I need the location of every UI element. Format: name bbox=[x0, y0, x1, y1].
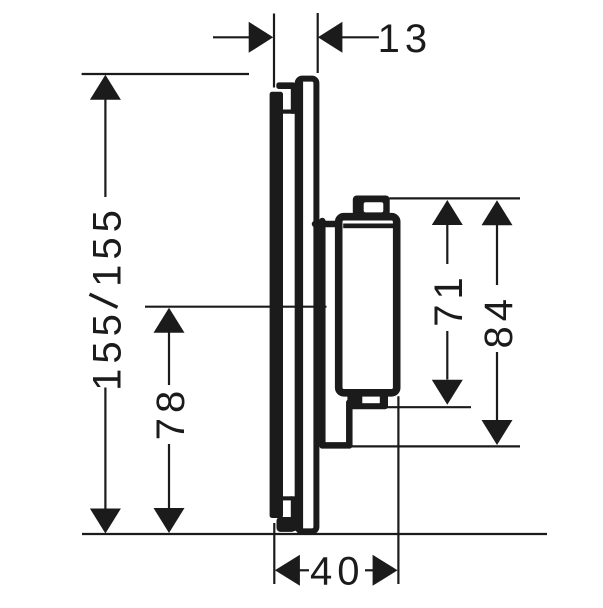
right top reference line bbox=[390, 197, 521, 199]
dim 84 lower line bbox=[496, 352, 498, 420]
dim 71 upper line bbox=[446, 224, 448, 264]
top clip right edge bbox=[291, 83, 296, 114]
dim 40 right stub bbox=[365, 569, 374, 571]
dim 78 bottom arrow bbox=[154, 508, 185, 533]
dim 13 right arrow bbox=[318, 22, 343, 53]
svg-text:71: 71 bbox=[427, 272, 471, 327]
bottom clip divider bbox=[281, 496, 292, 500]
collar window bbox=[362, 397, 380, 404]
dim 155/155 top arrow bbox=[90, 75, 121, 100]
svg-text:155: 155 bbox=[85, 309, 129, 391]
knob window bbox=[364, 202, 384, 212]
svg-text:78: 78 bbox=[149, 386, 193, 441]
13 right extension line bbox=[317, 13, 319, 73]
dim 155/155 slash bbox=[90, 294, 118, 307]
dim 71 top arrow bbox=[432, 200, 463, 225]
dim 155/155 lower line bbox=[104, 388, 106, 509]
dim 78 lower line bbox=[168, 444, 170, 509]
svg-text:84: 84 bbox=[477, 294, 521, 349]
escutcheon left face line bbox=[295, 80, 303, 530]
top clip divider bbox=[281, 110, 294, 114]
svg-text:40: 40 bbox=[310, 550, 365, 594]
escutcheon plate outline bbox=[298, 79, 317, 532]
dim 84 bottom arrow bbox=[482, 420, 513, 445]
svg-text:13: 13 bbox=[378, 17, 433, 61]
dim 84 top arrow bbox=[482, 200, 513, 225]
13 left extension line bbox=[273, 14, 275, 88]
carrier bottom cap bbox=[277, 517, 296, 532]
dim 84 upper line bbox=[496, 225, 498, 286]
dim 13 left tail bbox=[213, 36, 250, 38]
dim 13 right tail bbox=[342, 36, 379, 38]
svg-text:155: 155 bbox=[85, 205, 129, 287]
dim 78 top arrow bbox=[154, 308, 185, 333]
40 left extension line bbox=[273, 523, 275, 584]
carrier top cap bbox=[276, 82, 295, 89]
bottom clip right edge bbox=[291, 496, 296, 531]
dim 40 left stub bbox=[298, 569, 309, 571]
handle body bbox=[339, 217, 397, 393]
handle inner top line bbox=[343, 224, 394, 229]
dim 71 lower line bbox=[446, 331, 448, 380]
top reference line bbox=[82, 73, 249, 75]
collar at handle bottom bbox=[347, 392, 388, 409]
dim 155/155 upper line bbox=[104, 99, 106, 197]
71 bottom reference line bbox=[386, 406, 471, 408]
sleeve tube bbox=[315, 221, 349, 445]
dim 71 bottom arrow bbox=[432, 380, 463, 405]
84 bottom reference line bbox=[352, 445, 521, 447]
knob on handle top bbox=[353, 196, 390, 217]
dim 78 upper line bbox=[168, 331, 170, 385]
bottom reference line bbox=[82, 533, 547, 535]
dim 40 left arrow bbox=[275, 555, 300, 586]
middle reference line bbox=[145, 306, 327, 308]
dim 13 left arrow bbox=[249, 22, 274, 53]
carrier plate bar bbox=[270, 92, 283, 518]
40 right extension line bbox=[397, 396, 399, 584]
dim 155/155 bottom arrow bbox=[90, 509, 121, 534]
dim 40 right arrow bbox=[373, 555, 398, 586]
